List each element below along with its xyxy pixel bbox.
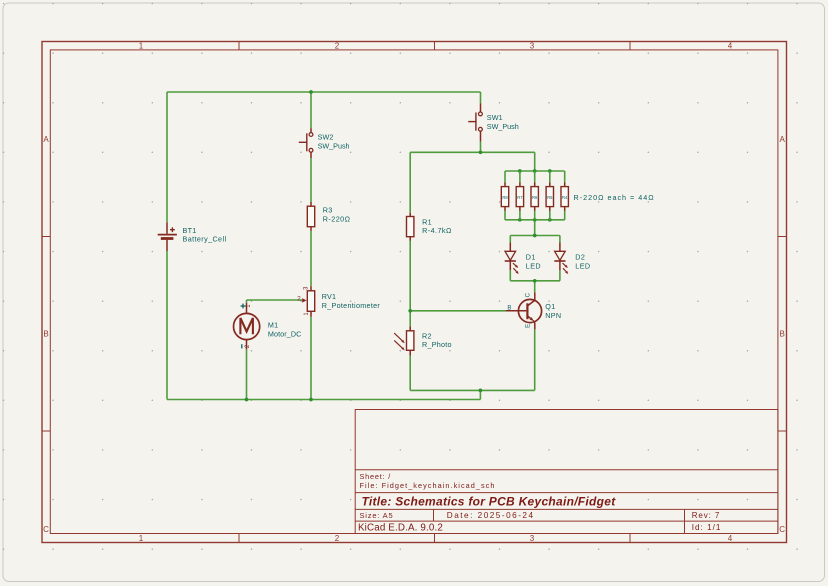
svg-text:1: 1 [139,534,144,543]
svg-text:R-220Ω each = 44Ω: R-220Ω each = 44Ω [574,193,655,202]
svg-text:A: A [43,135,49,144]
svg-text:A: A [780,135,786,144]
svg-text:RV1: RV1 [322,292,336,301]
svg-text:LED: LED [575,261,590,270]
svg-text:C: C [526,292,532,297]
svg-text:2: 2 [335,41,340,50]
svg-text:4: 4 [728,41,733,50]
svg-text:LED: LED [526,261,541,270]
svg-text:SW_Push: SW_Push [487,122,519,131]
svg-text:3: 3 [530,534,535,543]
svg-text:B: B [507,306,511,312]
svg-text:Date: 2025-06-24: Date: 2025-06-24 [447,511,535,520]
svg-text:Title: Schematics for PCB Keyc: Title: Schematics for PCB Keychain/Fidge… [362,494,617,508]
svg-text:R8: R8 [502,195,508,200]
svg-text:Size: A5: Size: A5 [360,511,394,520]
svg-text:Id: 1/1: Id: 1/1 [692,523,722,532]
svg-text:D2: D2 [575,253,585,262]
svg-text:BT1: BT1 [183,226,197,235]
svg-text:Sheet: /: Sheet: / [360,472,392,481]
svg-text:4: 4 [728,534,733,543]
svg-text:File: Fidget_keychain.kicad_sc: File: Fidget_keychain.kicad_sch [360,481,496,490]
svg-text:M1: M1 [268,321,279,330]
svg-text:R1: R1 [422,217,432,226]
svg-text:R-220Ω: R-220Ω [323,215,351,224]
svg-text:R2: R2 [422,331,432,340]
svg-text:R4: R4 [562,195,568,200]
svg-text:SW_Push: SW_Push [318,142,350,151]
svg-text:KiCad E.D.A. 9.0.2: KiCad E.D.A. 9.0.2 [358,522,443,533]
svg-text:R3: R3 [323,206,333,215]
svg-text:1: 1 [139,41,144,50]
svg-text:B: B [780,330,785,339]
svg-text:SW2: SW2 [318,133,334,142]
svg-text:R7: R7 [517,195,523,200]
svg-text:R6: R6 [532,195,538,200]
svg-text:Q1: Q1 [545,302,555,311]
svg-text:2: 2 [335,534,340,543]
svg-text:3: 3 [530,41,535,50]
svg-text:C: C [779,525,785,534]
svg-text:R-4.7kΩ: R-4.7kΩ [422,226,452,235]
svg-text:Rev: 7: Rev: 7 [692,511,721,520]
svg-text:R_Potentiometer: R_Potentiometer [322,301,381,310]
svg-text:Battery_Cell: Battery_Cell [183,235,227,244]
svg-text:C: C [43,525,49,534]
svg-text:R5: R5 [547,195,553,200]
svg-text:NPN: NPN [545,311,561,320]
svg-text:2: 2 [297,296,301,303]
svg-text:E: E [526,324,532,328]
svg-text:B: B [43,330,48,339]
svg-text:SW1: SW1 [487,113,503,122]
svg-text:Motor_DC: Motor_DC [268,329,302,338]
svg-text:R_Photo: R_Photo [422,340,452,349]
svg-text:D1: D1 [526,253,536,262]
